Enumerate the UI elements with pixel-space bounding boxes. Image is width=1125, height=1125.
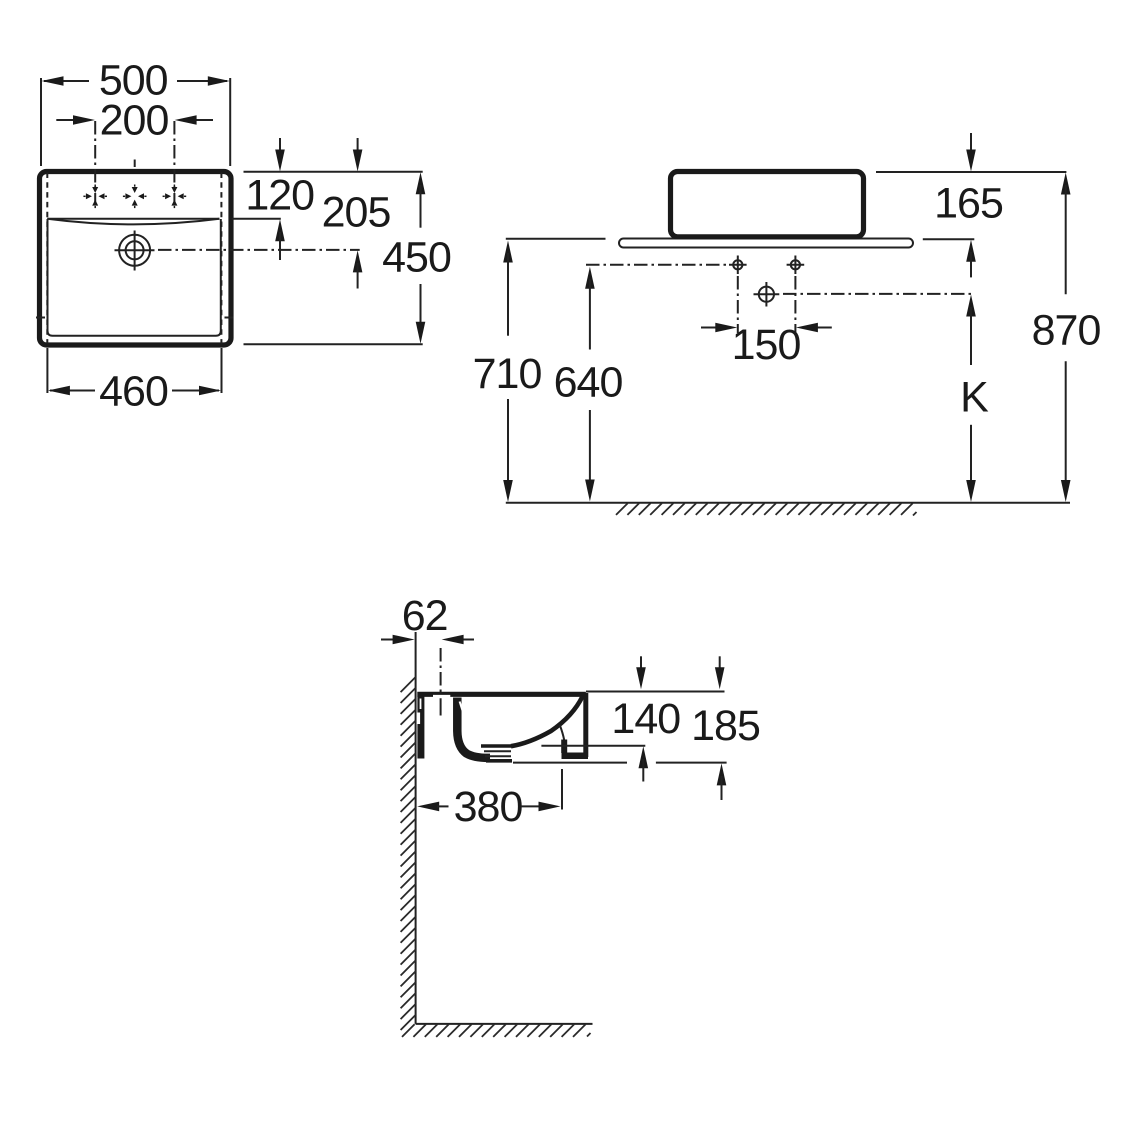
elev ref line left of shelf bbox=[506, 238, 606, 240]
dim 140 up arrow bbox=[639, 746, 649, 768]
dim 710 top arrow bbox=[503, 241, 513, 263]
sect faucet centerline bbox=[440, 648, 442, 694]
elev floor line bbox=[506, 502, 1070, 504]
plan faucet hole symbol middle bbox=[123, 185, 147, 209]
elev faucet hole right bbox=[791, 260, 800, 269]
sect rim tap hole notch bbox=[433, 695, 450, 698]
svg-text:120: 120 bbox=[245, 172, 314, 220]
plan drain centerline to right dims bbox=[158, 249, 360, 251]
dim 185 down arrow bbox=[719, 656, 721, 676]
svg-text:165: 165 bbox=[934, 180, 1003, 228]
sect drain trap steps bbox=[481, 744, 512, 747]
dim 460 line right + arrow bbox=[172, 390, 219, 392]
plan drain crosshair horizontal bbox=[115, 249, 155, 251]
plan bowl outline bbox=[48, 219, 221, 336]
elev shelf bbox=[619, 239, 913, 248]
dim 140 bottom ref line bbox=[541, 745, 645, 747]
plan witness tick right bbox=[225, 317, 234, 319]
plan drain inner circle bbox=[126, 241, 144, 259]
plan drain outer circle bbox=[119, 235, 150, 266]
plan hidden edge left (dashed) bbox=[46, 173, 48, 344]
sect wall bracket bbox=[417, 697, 424, 759]
svg-text:140: 140 bbox=[611, 695, 680, 743]
dim 500 extension left bbox=[40, 78, 42, 166]
plan faucet hole symbol left bbox=[83, 185, 107, 209]
dim 870 bottom arrow bbox=[1065, 361, 1067, 489]
dim 380 extension line bbox=[561, 769, 563, 810]
sect back wall and channel bbox=[457, 698, 490, 758]
dim 500 line right + arrow bbox=[177, 80, 227, 82]
sect overflow sliver white bbox=[460, 702, 463, 712]
svg-text:185: 185 bbox=[691, 702, 760, 750]
sect floor line bbox=[416, 1023, 593, 1025]
elev hole drop line right bbox=[794, 276, 796, 333]
plan bowl front edge curve bbox=[47, 219, 219, 225]
dim 165 up arrow bbox=[966, 240, 976, 262]
sect trap pocket bottom bbox=[562, 752, 589, 759]
dim ref line top of basin bbox=[244, 171, 423, 173]
dim 870 top arrow bbox=[1061, 173, 1071, 195]
dim 460 extension right bbox=[221, 348, 223, 393]
svg-text:710: 710 bbox=[473, 350, 542, 398]
dim 120 up arrow bbox=[275, 219, 285, 241]
elev hole drop line left bbox=[737, 276, 739, 333]
svg-text:870: 870 bbox=[1032, 307, 1101, 355]
elev faucet holes centerline bbox=[586, 264, 727, 266]
elev drain centerline bbox=[783, 293, 974, 295]
plan bowl front edge straight bbox=[47, 218, 219, 220]
sect wall line bbox=[415, 632, 417, 1024]
plan witness tick left bbox=[36, 317, 45, 319]
dim 140-185 top ref line bbox=[586, 691, 725, 693]
plan faucet centerline middle tick bbox=[134, 160, 136, 168]
elev faucet hole left bbox=[733, 260, 742, 269]
dim 205 up arrow bbox=[353, 250, 363, 272]
dim 200 arrow right bbox=[192, 119, 213, 121]
sect front outer wall bbox=[583, 693, 588, 757]
plan drain crosshair vertical bbox=[134, 231, 136, 271]
svg-text:150: 150 bbox=[732, 321, 801, 369]
plan faucet hole symbol right bbox=[163, 185, 187, 209]
dim 185 up arrow bbox=[717, 763, 727, 785]
dim ref line bottom of basin bbox=[244, 343, 423, 345]
svg-text:K: K bbox=[960, 374, 989, 422]
svg-text:62: 62 bbox=[402, 592, 448, 640]
dim K up arrow bbox=[966, 295, 976, 317]
dim 640 top arrow bbox=[585, 267, 595, 289]
svg-text:640: 640 bbox=[554, 358, 623, 406]
dim 380 arrow right bbox=[521, 805, 550, 807]
dim 62 arrow left bbox=[381, 639, 403, 641]
dim 500 extension right bbox=[229, 78, 231, 166]
dim 120 ref line bbox=[232, 218, 281, 220]
dim 140 down arrow bbox=[640, 656, 642, 676]
dim 500 line left + arrow bbox=[44, 80, 89, 82]
sect trap standpipe thin bbox=[560, 725, 564, 740]
elev basin body bbox=[671, 172, 864, 237]
dim 460 extension left bbox=[46, 348, 48, 393]
dim 380 arrow left bbox=[417, 802, 439, 812]
svg-text:380: 380 bbox=[454, 783, 523, 831]
sect bowl inner curve bbox=[511, 696, 583, 746]
plan faucet centerline left bbox=[94, 121, 96, 205]
svg-text:460: 460 bbox=[99, 368, 168, 416]
dim 150 arrow left bbox=[701, 327, 723, 329]
dim K bottom arrow bbox=[970, 425, 972, 490]
sect floor hatch bbox=[402, 1024, 591, 1037]
dim 200 arrow left bbox=[56, 119, 78, 121]
plan basin outer rim bbox=[40, 172, 232, 346]
sect wall hatch bbox=[401, 677, 416, 1030]
sect trap pocket left wall bbox=[561, 740, 567, 754]
dim 460 line left + arrow bbox=[50, 390, 95, 392]
dim 185 bottom ref line bbox=[513, 762, 627, 764]
dim 450 bottom arrow bbox=[420, 284, 422, 331]
sect rim bold line bbox=[417, 692, 586, 697]
sect bracket slot white bbox=[417, 713, 420, 725]
dim 205 down arrow bbox=[357, 138, 359, 158]
dim 150 arrow right bbox=[810, 327, 832, 329]
svg-text:450: 450 bbox=[382, 234, 451, 282]
dim 450 top arrow bbox=[416, 172, 426, 194]
elev ref line right of shelf bbox=[923, 238, 975, 240]
elev drain circle bbox=[759, 287, 774, 302]
dim 710 bottom arrow bbox=[507, 399, 509, 490]
dim 62 arrow right bbox=[453, 639, 474, 641]
svg-text:200: 200 bbox=[100, 97, 169, 145]
dim 165 down arrow bbox=[970, 133, 972, 158]
svg-text:205: 205 bbox=[322, 189, 391, 237]
dim 120 down arrow bbox=[279, 138, 281, 158]
elev floor hatch bbox=[616, 503, 917, 515]
elev top ref line bbox=[876, 171, 1066, 173]
plan faucet centerline right bbox=[173, 121, 175, 205]
plan hidden edge right (dashed) bbox=[220, 173, 222, 344]
dim 640 bottom arrow bbox=[589, 410, 591, 489]
